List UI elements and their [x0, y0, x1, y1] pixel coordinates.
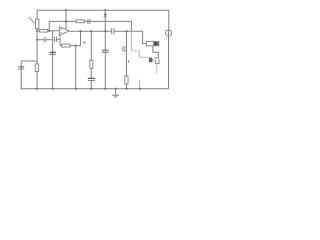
- node bus / C4: [104, 88, 106, 90]
- wire C10 column: [52, 40, 54, 89]
- resistor R4 (below op-amp): [62, 44, 71, 47]
- wire inverting input drop: [59, 35, 61, 46]
- wire C9 top link: [21, 60, 37, 62]
- resistor R6 (feedback): [76, 20, 84, 23]
- wire R4 left lead: [60, 45, 62, 47]
- node bus / R4 tee: [75, 88, 77, 90]
- node bus / ground: [115, 88, 117, 90]
- node junction bus / diode branch: [104, 9, 106, 11]
- capacitor C5 (feedback series): [87, 19, 89, 24]
- wire faint link: [131, 50, 139, 52]
- wire op-amp output: [69, 30, 111, 32]
- capacitor C6 (output series): [111, 28, 113, 34]
- wire buzzer left lead: [143, 31, 147, 43]
- wire C6 to buzzer branch: [114, 30, 143, 32]
- resistor R3 (series input): [40, 30, 48, 33]
- wire R2 bottom lead: [36, 72, 38, 89]
- capacitor C1: [43, 37, 45, 42]
- node bus / R7: [125, 88, 127, 90]
- wire R5 top lead: [90, 31, 92, 60]
- label smudge near C8: [128, 60, 129, 62]
- node R4 tee: [75, 45, 77, 47]
- wire C1 node up to input: [52, 31, 54, 40]
- wire C7 faint bottom lead: [156, 64, 158, 74]
- resistor R7 (right vertical): [125, 76, 128, 84]
- diode D1: [104, 14, 107, 17]
- wire left rail: [36, 29, 38, 64]
- resistor R5 (mid vertical): [90, 60, 93, 68]
- wire C1 left lead: [37, 39, 44, 41]
- terminal bubble: [122, 47, 126, 51]
- wire C3 bottom lead: [90, 81, 92, 89]
- node bus / C3: [90, 88, 92, 90]
- wire C4 bottom lead: [104, 52, 106, 88]
- node rail / C1 junction: [36, 39, 38, 41]
- wire C4 top lead: [104, 31, 106, 50]
- lamp LP1: [165, 30, 171, 36]
- capacitor C4 (dark): [102, 49, 109, 51]
- wire R3 left lead: [37, 30, 39, 32]
- wire feedback drop: [130, 21, 132, 31]
- resistor R1 (preset, upper left): [36, 19, 39, 28]
- capacitor C7 (electrolytic cup): [155, 57, 160, 59]
- wire feedback run: [49, 21, 131, 30]
- wire buzzer bottom lead: [153, 46, 159, 58]
- capacitor C3 (electrolytic): [88, 77, 95, 79]
- wire R4 up to output: [80, 31, 82, 45]
- wire faint C8 left lead: [140, 56, 149, 58]
- wire diode bottom lead: [104, 17, 106, 31]
- pot wiper arrow of R1: [29, 17, 34, 23]
- wire faint drop below output: [130, 31, 132, 51]
- wire top supply bus: [37, 10, 169, 29]
- node rail / R3 junction: [36, 30, 38, 32]
- wire tee down to bus: [75, 46, 77, 89]
- node bus / R2: [36, 88, 38, 90]
- capacitor C2: [53, 37, 55, 42]
- capacitor C9 (electrolytic left): [18, 66, 24, 68]
- wire R4 right lead: [70, 45, 81, 47]
- wire C2 right lead: [56, 38, 60, 40]
- node junction bus / V+ drop: [65, 9, 67, 11]
- capacitor C8 (dark plate): [149, 58, 152, 63]
- node feedback / V+ crossing: [65, 20, 67, 22]
- node bus / faint drop: [139, 88, 141, 90]
- label smudge near R4: [83, 41, 86, 44]
- wire C1 right lead: [46, 39, 53, 41]
- node bus / C10: [52, 88, 54, 90]
- wire right branch to bus: [168, 36, 170, 88]
- wire V+ drop to op-amp: [65, 10, 67, 29]
- wire R3 to op-amp input: [48, 30, 60, 32]
- node output tee to R7: [125, 30, 127, 32]
- buzzer BZ1: [146, 41, 153, 45]
- wire R7 bottom lead: [126, 84, 128, 89]
- node output / C4 branch: [104, 30, 106, 32]
- wire R5 to C3: [90, 68, 92, 78]
- capacitor C10 (electrolytic mid): [50, 51, 56, 53]
- node feedback tap: [48, 30, 50, 32]
- wire diode top lead: [104, 10, 106, 14]
- wire R7 top lead: [126, 31, 128, 76]
- wire faint drop to bus: [139, 80, 141, 89]
- resistor R2 (lower left): [35, 64, 38, 72]
- node output / R5: [90, 30, 92, 32]
- ground: [115, 89, 117, 96]
- op-amp U1: [59, 27, 69, 36]
- wire bottom ground bus: [21, 61, 168, 89]
- node output / R4: [79, 30, 81, 32]
